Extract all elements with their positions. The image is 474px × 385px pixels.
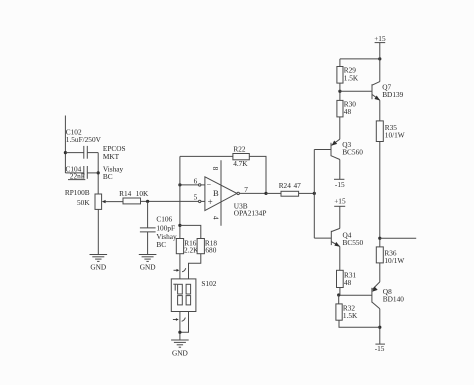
wire R24 right — [299, 192, 315, 194]
wire C102 left stub — [65, 152, 83, 154]
wire right vertical to pot — [97, 153, 99, 194]
node junction C102 left — [64, 151, 67, 154]
svg-text:BC: BC — [103, 172, 113, 181]
svg-text:48: 48 — [344, 107, 352, 116]
node junction C106 tap — [146, 200, 149, 203]
resistor R14 — [119, 189, 149, 204]
wire Q3 collector down — [339, 160, 341, 180]
svg-text:10/1W: 10/1W — [385, 130, 405, 139]
wire Q7 emitter down — [379, 100, 381, 121]
ground GND under RP100B — [90, 255, 108, 272]
wire C106 branch — [147, 201, 149, 228]
power -15 under Q3 — [334, 179, 345, 189]
wire output stub — [380, 237, 416, 239]
svg-text:GND: GND — [90, 263, 106, 272]
svg-text:5: 5 — [194, 192, 198, 201]
pin 5 — [194, 192, 205, 202]
svg-text:BC550: BC550 — [343, 238, 364, 247]
wire pot bottom to ground — [97, 209, 99, 254]
svg-text:1.5K: 1.5K — [344, 73, 359, 82]
svg-text:1.5uF/250V: 1.5uF/250V — [66, 135, 102, 144]
svg-text:S102: S102 — [201, 279, 216, 288]
wire C106 to ground — [147, 232, 149, 255]
wire R16 bottom — [179, 254, 181, 279]
potentiometer RP100B — [65, 188, 123, 209]
transistor Q3 — [331, 139, 363, 159]
svg-text:680: 680 — [205, 245, 216, 254]
power -15 bottom — [375, 344, 385, 353]
node junction output — [264, 192, 267, 195]
wire R30 top — [339, 91, 341, 100]
wire Q3 base — [314, 149, 331, 151]
svg-text:GND: GND — [140, 263, 156, 272]
resistor R18 — [197, 239, 217, 255]
connector S102 — [171, 279, 216, 312]
resistor R32 — [336, 304, 358, 321]
resistor R24 — [279, 181, 301, 196]
wire R18 bottom — [189, 254, 201, 279]
svg-text:10K: 10K — [136, 189, 149, 198]
pin 7 output — [237, 185, 266, 195]
svg-text:RP100B: RP100B — [65, 188, 90, 197]
wire R18 top branch — [180, 225, 201, 238]
wire R31 bottom — [339, 288, 341, 296]
resistor R31 — [337, 270, 357, 287]
capacitor C106 — [140, 215, 177, 250]
svg-text:C106: C106 — [156, 215, 172, 224]
node junction bases — [313, 192, 316, 195]
svg-text:7: 7 — [244, 185, 248, 194]
svg-text:8: 8 — [211, 167, 220, 171]
wire base vertical — [313, 150, 315, 239]
svg-text:−: − — [207, 180, 212, 189]
ground GND under S102 — [171, 340, 189, 358]
wire C104 right stub — [87, 172, 98, 174]
svg-text:4: 4 — [212, 216, 221, 220]
svg-text:50K: 50K — [77, 198, 90, 207]
switch contact marks top — [174, 268, 186, 272]
wire R22 right — [249, 156, 266, 193]
power +15 above Q4 — [334, 197, 346, 207]
wire S102 right bottom — [180, 312, 189, 333]
wire R32 bottom to junction — [339, 320, 380, 327]
svg-text:-15: -15 — [335, 180, 345, 189]
wire Q8 collector down — [379, 309, 381, 344]
wire C104 left stub — [65, 172, 83, 174]
wire R14 to pin5 — [141, 200, 199, 202]
wire R29 ends — [339, 59, 341, 67]
svg-text:B: B — [213, 188, 219, 198]
svg-text:48: 48 — [344, 278, 352, 287]
transistor Q4 — [331, 228, 363, 246]
svg-text:R14: R14 — [119, 189, 132, 198]
wire input vertical — [64, 116, 66, 174]
svg-text:10/1W: 10/1W — [384, 256, 404, 265]
svg-text:R24: R24 — [279, 181, 292, 190]
label Vishay BC — [103, 164, 124, 181]
wire feedback vertical — [179, 156, 181, 238]
resistor R16 — [176, 239, 199, 255]
wire S102 left bottom — [179, 312, 181, 340]
wire Q4 base — [314, 237, 331, 239]
capacitor C102 — [66, 127, 102, 158]
wire R32 top — [338, 295, 340, 304]
node junction Q8 R32 — [378, 326, 381, 329]
resistor R35 — [376, 121, 404, 142]
resistor R30 — [337, 100, 356, 117]
wire C102 right stub — [87, 152, 98, 154]
svg-text:+15: +15 — [334, 197, 346, 206]
svg-text:R22: R22 — [233, 144, 246, 153]
resistor R22 — [233, 144, 249, 168]
wire R22 left — [180, 155, 233, 157]
power +15 top — [374, 34, 386, 59]
svg-text:OPA2134P: OPA2134P — [234, 209, 267, 218]
node junction R31 R32 — [337, 293, 340, 296]
op-amp U3B — [205, 160, 266, 226]
svg-text:BD140: BD140 — [383, 294, 404, 303]
node junction C104 right — [97, 171, 100, 174]
wire Q3 emitter up — [339, 117, 341, 139]
wire Q4 emitter down — [339, 246, 341, 270]
svg-text:+15: +15 — [374, 34, 386, 43]
svg-text:MKT: MKT — [103, 152, 120, 161]
switch contact marks bottom — [173, 318, 186, 322]
wire Q7 base — [340, 90, 372, 92]
capacitor C104 — [66, 164, 88, 180]
svg-text:BD139: BD139 — [382, 90, 403, 99]
wire output rail vertical — [379, 142, 381, 247]
wire R36 bottom — [379, 263, 381, 282]
node junction S102 gnd — [178, 331, 181, 334]
node junction output tap — [378, 237, 381, 240]
label EPCOS MKT — [103, 144, 126, 161]
wire output to R24 — [266, 192, 281, 194]
transistor Q7 — [372, 59, 404, 101]
resistor R36 — [376, 247, 404, 265]
svg-text:GND: GND — [172, 349, 188, 358]
pin 6 — [180, 177, 205, 186]
resistor R29 — [337, 66, 359, 84]
svg-text:BC: BC — [156, 240, 166, 249]
wire Q8 base — [339, 294, 372, 296]
svg-text:-15: -15 — [375, 344, 385, 353]
svg-text:4.7K: 4.7K — [233, 159, 248, 168]
svg-text:BC560: BC560 — [342, 148, 363, 157]
svg-text:+: + — [208, 197, 213, 207]
svg-text:1.5K: 1.5K — [343, 311, 358, 320]
svg-text:47: 47 — [294, 181, 302, 190]
node junction Q7 collector — [378, 57, 381, 60]
node junction pin6 feedback — [178, 183, 181, 186]
node junction R16 R18 tap — [178, 224, 181, 227]
wire top rail — [340, 58, 380, 60]
svg-text:6: 6 — [194, 177, 198, 186]
node junction R29 R30 — [338, 90, 341, 93]
transistor Q8 — [372, 282, 404, 309]
ground GND under C106 — [139, 255, 157, 272]
wire Q4 collector up — [339, 206, 341, 228]
